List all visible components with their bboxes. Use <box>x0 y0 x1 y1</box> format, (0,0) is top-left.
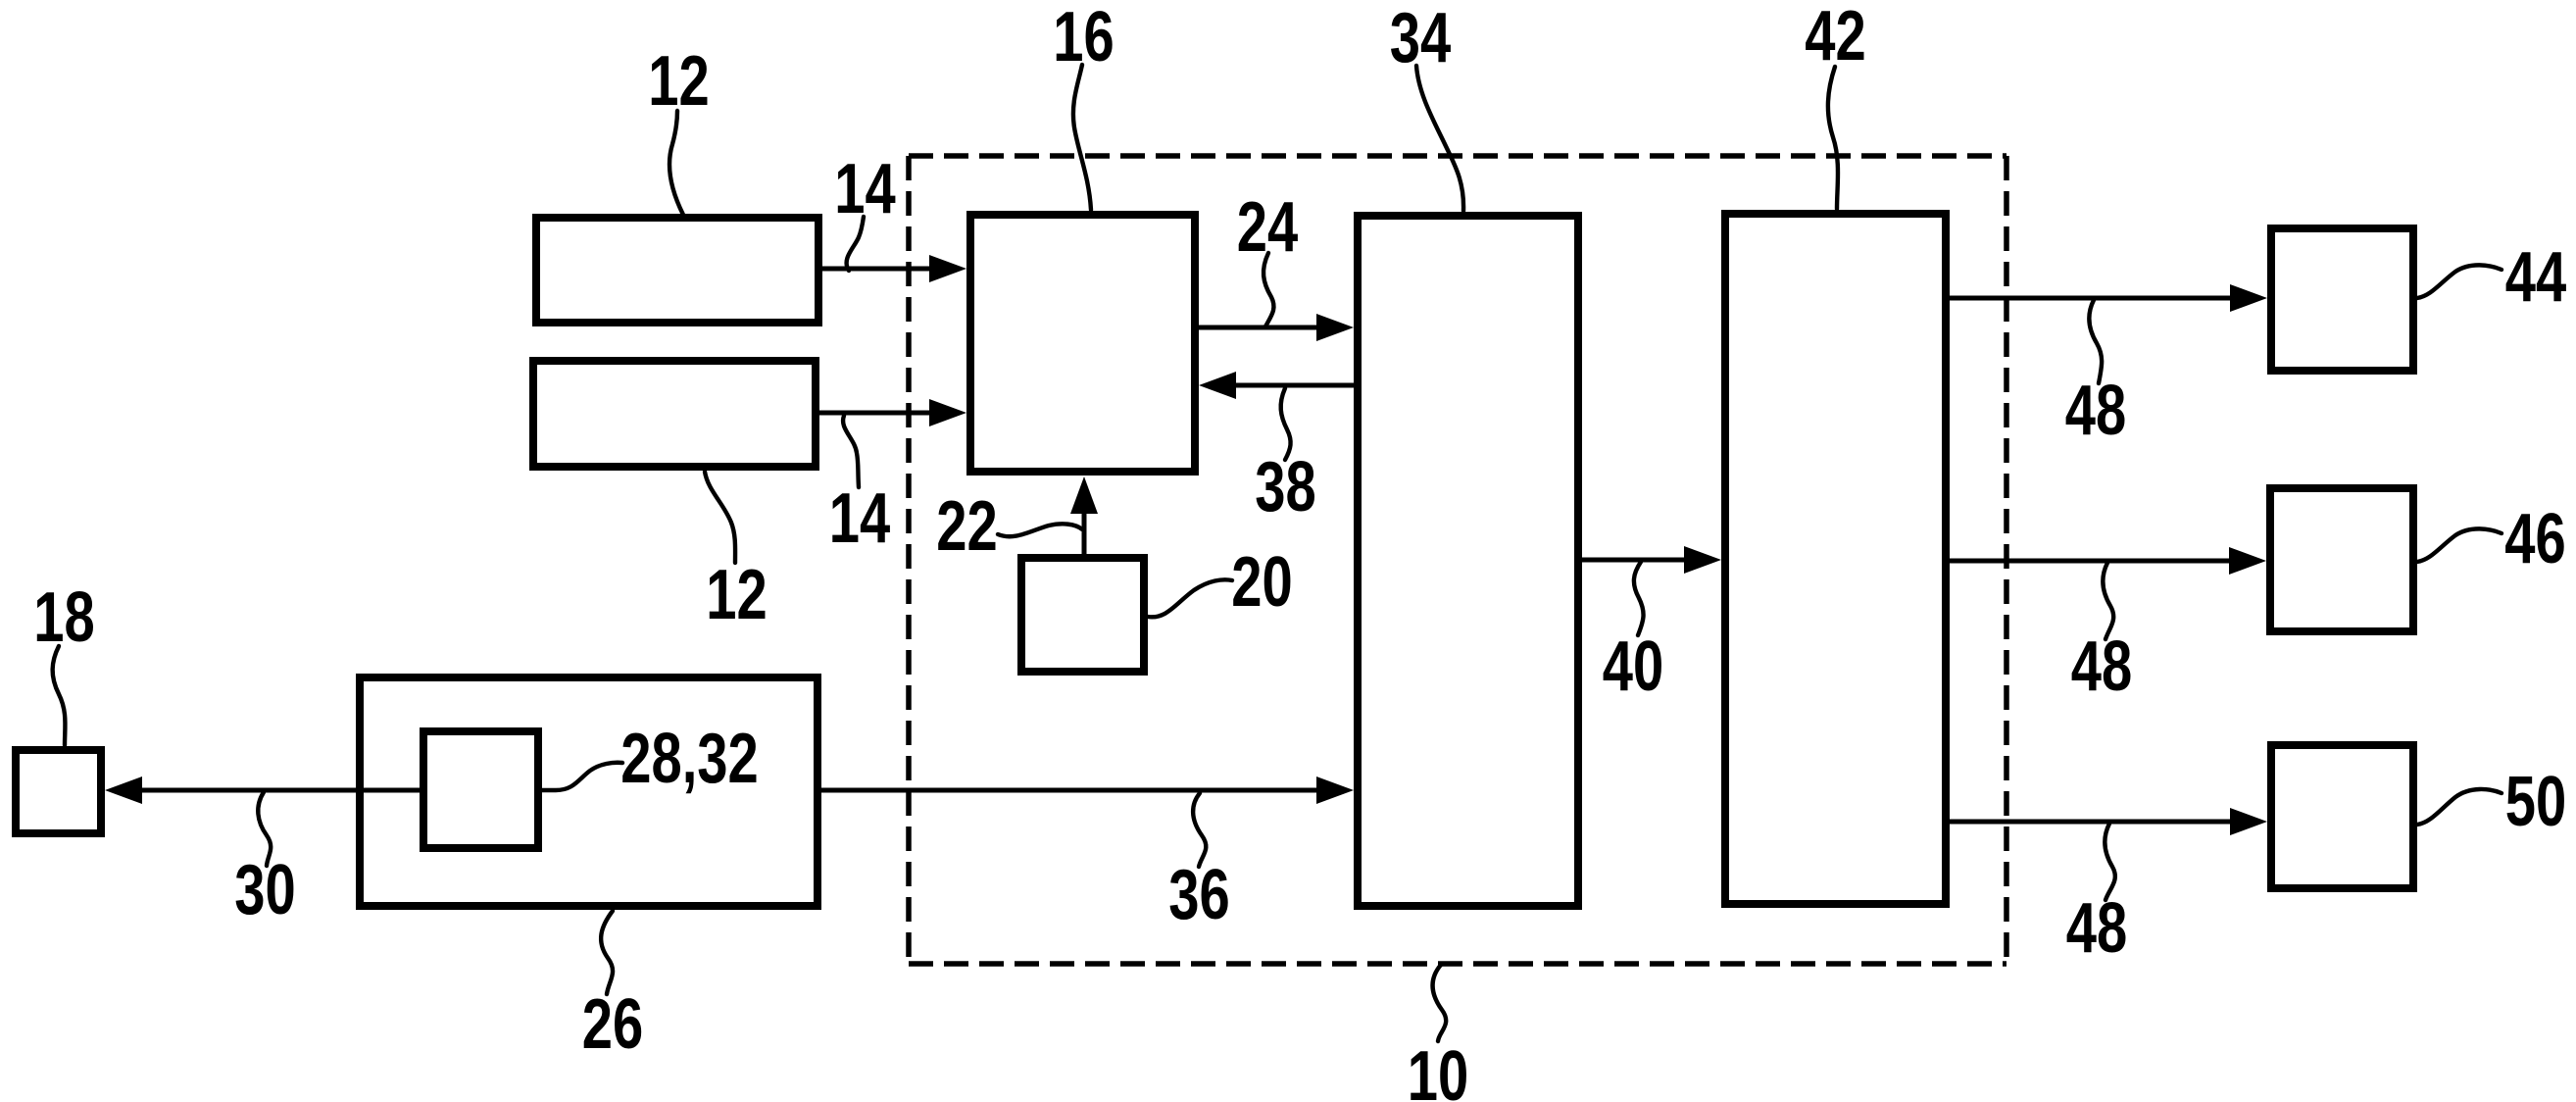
lead line for numeral 38 <box>1281 388 1291 460</box>
wire 14 from lower block 12 to block 16 <box>819 399 966 426</box>
block 46 actuator box <box>2270 488 2413 631</box>
lead line for numeral 12 lower <box>705 472 735 563</box>
svg-text:34: 34 <box>1390 0 1452 77</box>
lead line for numeral 30 <box>258 792 271 866</box>
lead line for numeral 12 upper <box>669 111 683 215</box>
block 42 output stage <box>1725 214 1946 904</box>
wire 38 from block 34 to block 16 <box>1199 372 1354 399</box>
svg-text:12: 12 <box>648 41 709 120</box>
wire 48 from block 42 to block 50 <box>1950 808 2267 835</box>
lead line for numeral 10 <box>1433 965 1447 1041</box>
block 26 interface unit <box>360 677 817 906</box>
block 18 external unit <box>16 750 101 833</box>
svg-text:44: 44 <box>2505 237 2567 316</box>
block 44 actuator box <box>2271 228 2413 371</box>
wire 24 from block 16 to block 34 <box>1199 314 1354 341</box>
lead line for numeral 20 <box>1148 579 1232 617</box>
svg-text:28,32: 28,32 <box>620 719 758 797</box>
svg-text:40: 40 <box>1603 626 1663 705</box>
block 16 input unit <box>970 215 1195 472</box>
svg-text:48: 48 <box>2065 371 2126 449</box>
svg-text:48: 48 <box>2071 626 2132 705</box>
lead line for numeral 48 middle <box>2103 563 2113 639</box>
wire 30 from block 26 to block 18 <box>105 776 356 804</box>
svg-text:26: 26 <box>582 984 643 1063</box>
wire 14 from upper block 12 to block 16 <box>822 255 966 282</box>
block 20 clock unit <box>1021 558 1144 672</box>
lead line for numeral 18 <box>53 646 66 745</box>
lead line for numeral 40 <box>1634 562 1644 635</box>
lead line for numeral 14 upper <box>847 217 864 271</box>
lead line for numeral 44 <box>2417 265 2502 298</box>
lead line for numeral 22 <box>998 524 1082 536</box>
block 28,32 transceiver sub-block <box>423 731 538 848</box>
wire 22 from block 20 to block 16 <box>1070 476 1098 554</box>
wire 40 from block 34 to block 42 <box>1582 546 1721 574</box>
lead line for numeral 46 <box>2417 528 2502 562</box>
lead line for numeral 36 <box>1193 793 1206 867</box>
dashed boundary of control unit 10 <box>909 156 2006 964</box>
svg-text:46: 46 <box>2504 499 2565 577</box>
svg-text:18: 18 <box>33 577 94 656</box>
block 12 upper sensor box <box>536 218 818 323</box>
lead line for numeral 14 lower <box>843 416 859 487</box>
lead line for numeral 48 top <box>2089 300 2102 383</box>
wire segment inside block 26 to sub-block 28,32 <box>360 788 423 793</box>
wire 48 from block 42 to block 46 <box>1950 547 2266 575</box>
svg-text:12: 12 <box>706 555 767 633</box>
lead line for numeral 24 <box>1263 253 1273 326</box>
wire 48 from block 42 to block 44 <box>1950 284 2267 312</box>
wire 36 from block 26 to block 34 <box>821 776 1354 804</box>
svg-text:20: 20 <box>1231 542 1292 621</box>
lead line for numeral 50 <box>2417 789 2502 825</box>
lead line for numeral 28,32 <box>542 763 622 790</box>
svg-text:14: 14 <box>829 478 891 557</box>
block 50 actuator box <box>2271 745 2413 888</box>
svg-text:50: 50 <box>2505 762 2566 840</box>
lead line for numeral 48 bottom <box>2105 824 2114 900</box>
svg-text:42: 42 <box>1805 0 1865 75</box>
lead line for numeral 42 <box>1828 67 1838 209</box>
block 12 lower sensor box <box>533 361 816 467</box>
block 34 processing unit <box>1358 216 1578 906</box>
svg-text:48: 48 <box>2066 888 2127 967</box>
svg-text:10: 10 <box>1408 1036 1468 1102</box>
lead line for numeral 16 <box>1073 65 1091 210</box>
lead line for numeral 26 <box>601 911 613 994</box>
svg-text:22: 22 <box>936 486 997 565</box>
lead line for numeral 34 <box>1416 66 1463 211</box>
